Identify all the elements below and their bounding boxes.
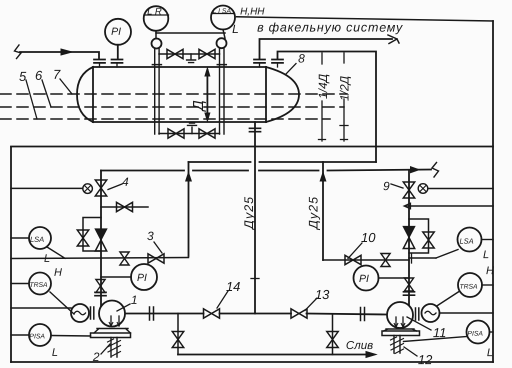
svg-text:1: 1 [131, 293, 138, 307]
svg-text:Н,НН: Н,НН [240, 6, 265, 17]
svg-text:Д: Д [191, 100, 207, 112]
svg-text:H: H [486, 265, 494, 277]
svg-text:11: 11 [433, 325, 447, 340]
svg-text:L: L [232, 22, 239, 36]
svg-text:Слив: Слив [346, 340, 373, 352]
svg-text:4: 4 [122, 175, 129, 189]
svg-text:L: L [487, 347, 493, 359]
svg-text:TRSA: TRSA [29, 282, 48, 289]
svg-text:PI: PI [359, 273, 369, 285]
svg-text:1/4Д: 1/4Д [316, 73, 330, 99]
svg-text:L: L [44, 253, 50, 265]
svg-text:3: 3 [147, 229, 154, 243]
svg-text:10: 10 [361, 230, 376, 245]
svg-text:9: 9 [383, 179, 390, 193]
svg-text:2: 2 [92, 350, 100, 364]
svg-text:L: L [52, 347, 58, 359]
svg-text:Ду25: Ду25 [306, 196, 320, 231]
svg-text:PISA: PISA [29, 333, 45, 340]
svg-text:Ду25: Ду25 [242, 196, 256, 231]
svg-text:1/2Д: 1/2Д [338, 75, 352, 101]
svg-text:PI: PI [137, 272, 147, 284]
svg-text:7: 7 [53, 67, 61, 82]
svg-text:6: 6 [35, 68, 43, 83]
svg-text:PI: PI [111, 26, 121, 38]
svg-text:12: 12 [418, 352, 433, 367]
svg-text:8: 8 [298, 52, 305, 66]
svg-text:14: 14 [226, 279, 240, 294]
svg-text:PISA: PISA [467, 331, 483, 338]
svg-text:13: 13 [315, 287, 330, 302]
svg-text:TRSA: TRSA [459, 284, 478, 291]
svg-text:LSA: LSA [459, 237, 473, 246]
svg-text:в факельную систему: в факельную систему [257, 21, 403, 35]
svg-text:LSA: LSA [30, 235, 44, 244]
svg-text:L I SA: L I SA [213, 8, 232, 15]
svg-text:5: 5 [19, 69, 27, 84]
svg-text:L: L [483, 249, 489, 261]
svg-text:L R: L R [147, 6, 162, 17]
svg-text:H: H [54, 267, 62, 279]
